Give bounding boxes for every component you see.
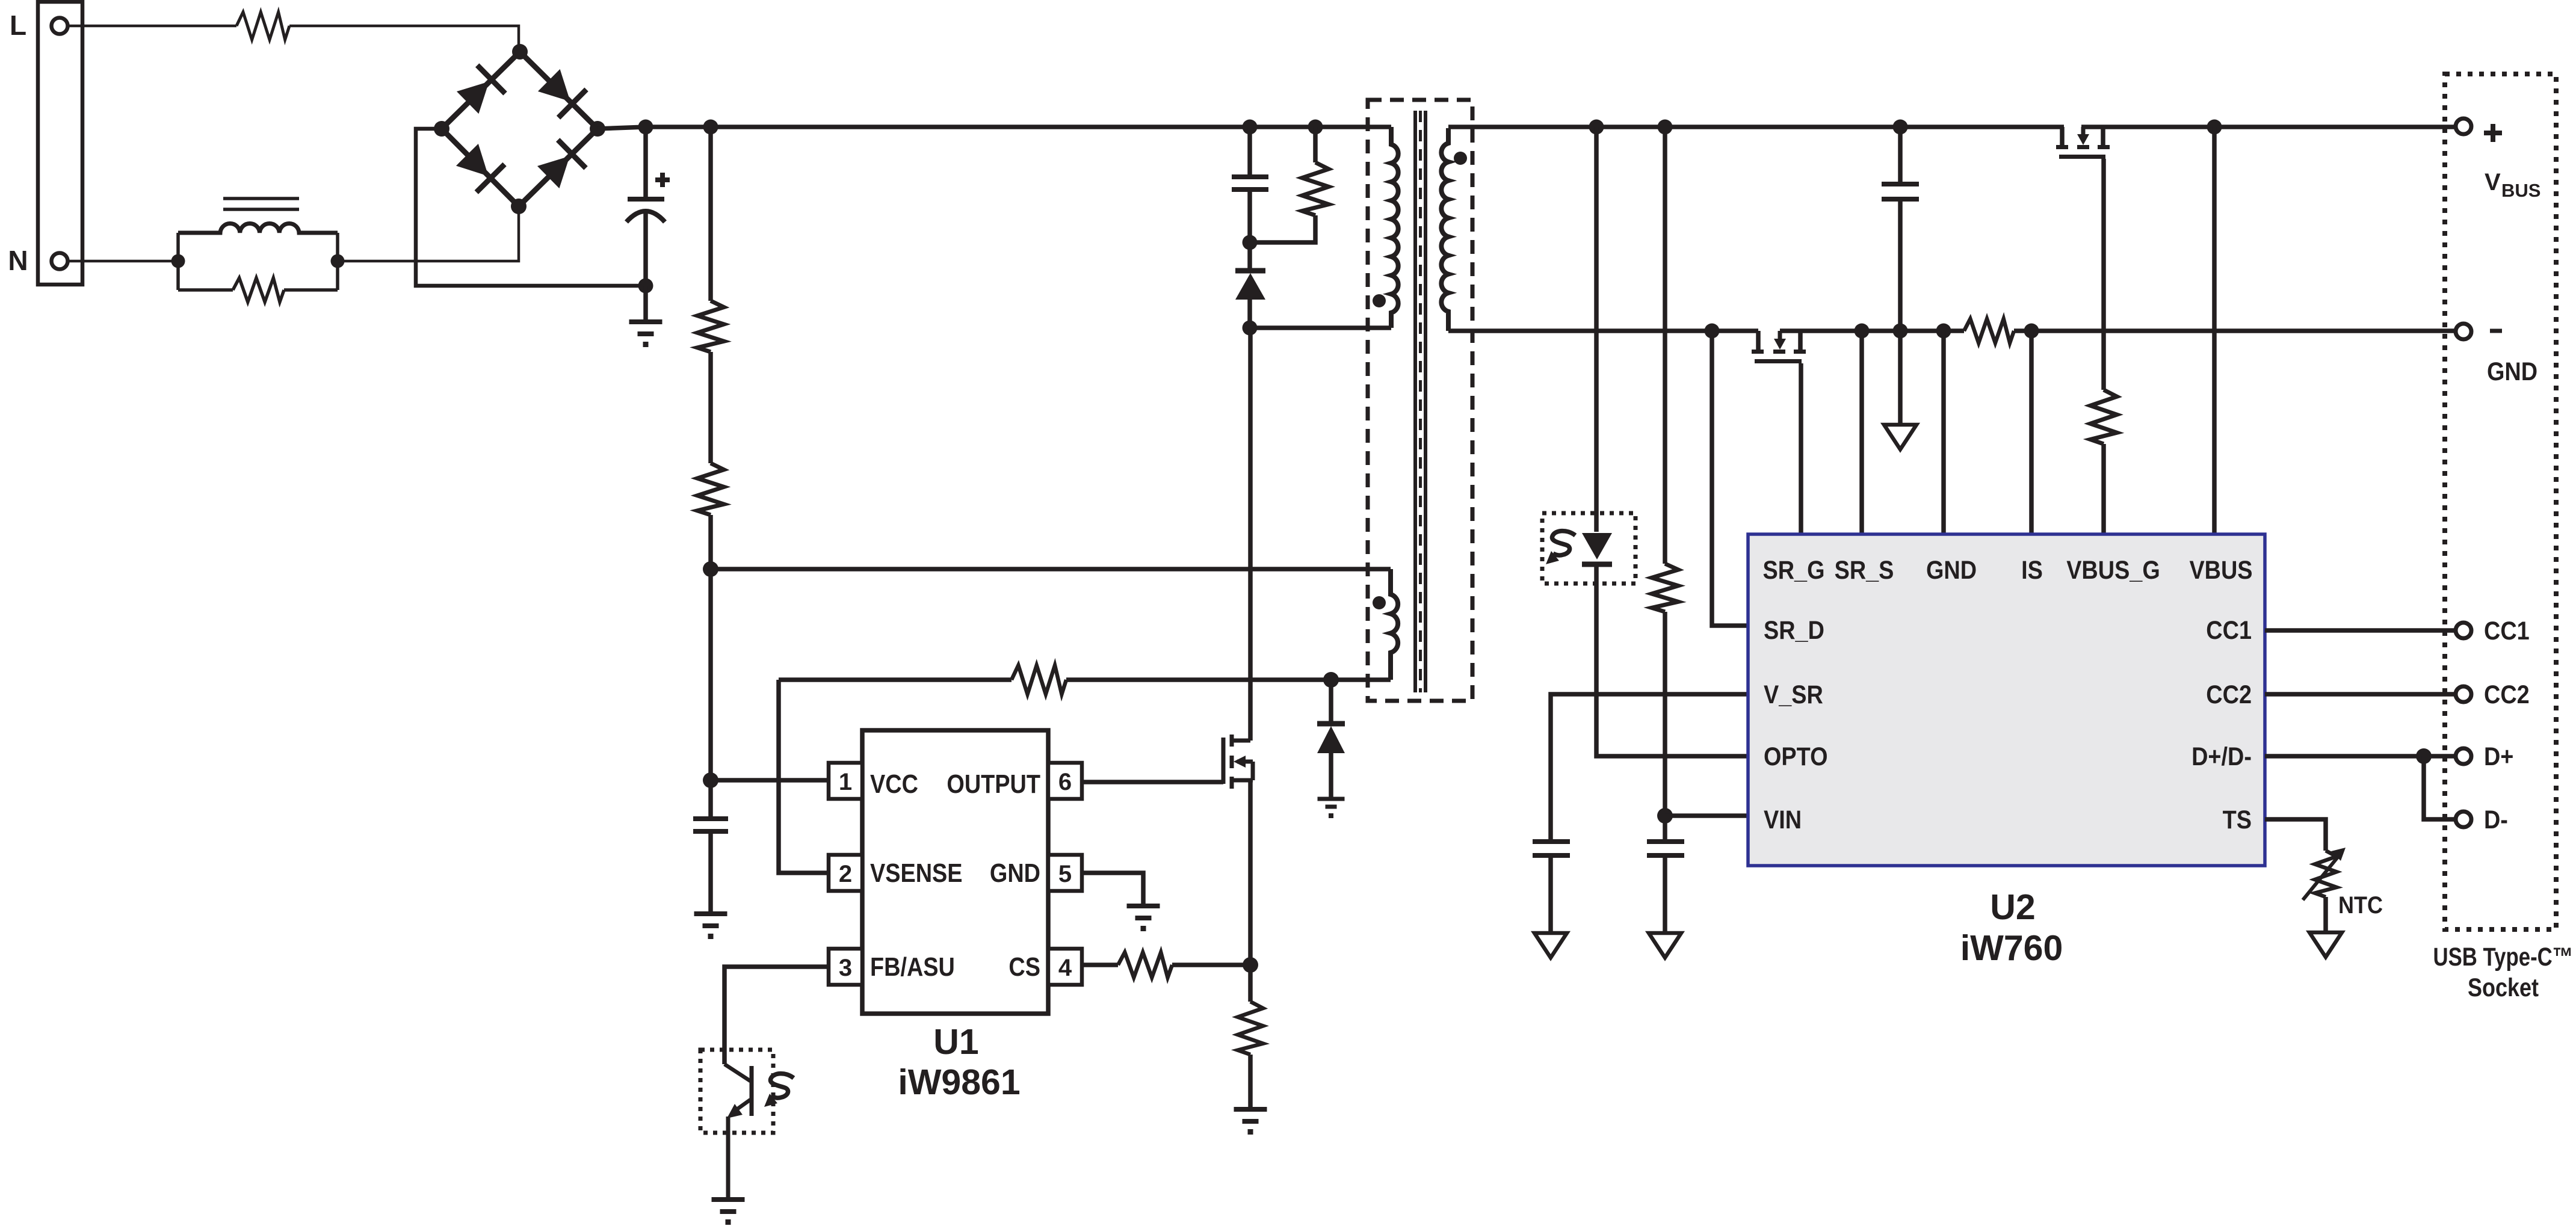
- startup resistor R2: [708, 352, 713, 463]
- FB/ASU wire: [724, 967, 829, 1064]
- TS wire: [2265, 819, 2326, 851]
- VCC wire: [711, 778, 829, 783]
- bridge diode D4 (bottom-right arm): [534, 140, 586, 191]
- optocoupler LED light arrow: [1552, 531, 1575, 555]
- secondary ground wire left: [1448, 328, 1758, 333]
- USB socket dotted box: [2445, 74, 2556, 929]
- bulk capacitor C1 plus sign: [655, 177, 670, 182]
- SR_D wire: [1712, 331, 1748, 626]
- optocoupler LED dotted box: [1542, 513, 1635, 584]
- USB CC1 terminal: [2456, 623, 2471, 638]
- aux winding feed wire: [711, 567, 1391, 571]
- aux return node: [1323, 672, 1339, 688]
- VBUS_G gate resistor R9: [2101, 159, 2106, 390]
- svg-text:FB/ASU: FB/ASU: [870, 952, 955, 982]
- VIN feed resistor R7: [1663, 127, 1667, 564]
- transformer secondary winding: [1441, 128, 1448, 331]
- snubber resistor R3: [1313, 127, 1318, 162]
- V_SR cap ground arrow: [1534, 933, 1567, 958]
- svg-text:VCC: VCC: [870, 769, 918, 799]
- VIN cap ground arrow: [1649, 933, 1681, 958]
- wire N to choke: [68, 260, 178, 263]
- VBUS pin wire: [2212, 127, 2217, 534]
- svg-text:VIN: VIN: [1764, 806, 1802, 834]
- secondary ground arrow stub: [1898, 331, 1903, 425]
- svg-text:4: 4: [1058, 955, 1072, 981]
- common-mode choke damping resistor: [176, 233, 180, 290]
- bulk capacitor C1 curved plate: [626, 211, 665, 222]
- IS node: [2024, 324, 2039, 339]
- CS wire: [1082, 963, 1118, 967]
- U2 body: [1748, 534, 2265, 866]
- common-mode choke core: [223, 197, 299, 200]
- optocoupler light arrow: [764, 1074, 794, 1107]
- bridge diode D2 (top-right arm): [535, 66, 587, 118]
- D+/D- wire: [2265, 754, 2456, 759]
- secondary VBUS rail left: [1448, 125, 2064, 129]
- wire fuse to bridge top: [289, 26, 519, 52]
- bridge diode D1 (left-top arm): [454, 65, 505, 117]
- rail node at snubber resistor: [1308, 120, 1323, 135]
- primary winding bottom node: [1243, 321, 1258, 336]
- U1 pin 5 box: [1048, 855, 1082, 891]
- bulk capacitor C1 positive lead: [643, 127, 648, 199]
- fuse F1: [236, 12, 289, 40]
- VCC ground symbol: [694, 911, 727, 916]
- bridge diode D3 (left-bottom arm): [453, 141, 505, 193]
- CS node: [1243, 957, 1258, 973]
- svg-text:VSENSE: VSENSE: [870, 858, 963, 888]
- primary ground symbol: [643, 286, 648, 322]
- secondary VBUS rail right: [2081, 125, 2456, 129]
- svg-text:V: V: [2485, 169, 2501, 196]
- terminal N: [52, 253, 68, 270]
- svg-text:D-: D-: [2484, 806, 2508, 834]
- svg-text:CS: CS: [1008, 952, 1040, 982]
- USB D- terminal: [2456, 812, 2471, 827]
- primary DC rail: [641, 125, 1391, 129]
- VCC capacitor C3: [708, 780, 713, 819]
- secondary phase dot: [1454, 152, 1467, 165]
- SR_S wire: [1859, 331, 1864, 534]
- IS pin wire: [2029, 331, 2034, 534]
- NTC ground arrow: [2323, 897, 2328, 932]
- U1 pin 1 box: [829, 763, 862, 799]
- VIN node: [1657, 808, 1673, 824]
- sense resistor R5: [1248, 965, 1253, 1002]
- choke left node: [171, 254, 185, 268]
- opto LED rail node: [1589, 120, 1604, 135]
- svg-text:SR_D: SR_D: [1764, 616, 1824, 645]
- svg-text:3: 3: [839, 955, 852, 981]
- wire divider node to VCC node: [708, 569, 713, 780]
- SR gate wire: [1799, 363, 1803, 534]
- rail node at divider: [703, 120, 718, 135]
- svg-text:iW760: iW760: [1960, 928, 2063, 968]
- svg-text:CC2: CC2: [2484, 680, 2530, 709]
- opto LED wire upper: [1594, 127, 1599, 532]
- aux diode ground symbol: [1318, 797, 1345, 801]
- svg-text:5: 5: [1058, 861, 1072, 887]
- snubber capacitor C2: [1247, 127, 1252, 177]
- NTC thermistor: [2315, 851, 2337, 897]
- U1 pin 4 box: [1048, 949, 1082, 985]
- U2 GND node: [1936, 324, 1951, 339]
- rail node at bulk cap: [638, 120, 653, 135]
- common-mode choke inductor: [178, 224, 338, 233]
- OUTPUT gate wire: [1082, 780, 1223, 784]
- aux phase dot: [1373, 596, 1386, 609]
- primary phase dot: [1373, 294, 1386, 307]
- MOSFET Q1 source wire: [1248, 780, 1253, 965]
- USB VBUS terminal: [2456, 119, 2471, 134]
- optocoupler emitter ground symbol: [712, 1197, 745, 1202]
- AC input terminal block: [38, 2, 82, 285]
- svg-text:U2: U2: [1990, 887, 2035, 927]
- current sense shunt resistor R8: [1964, 319, 2014, 343]
- wire choke to bridge bottom: [338, 206, 519, 261]
- svg-text:OUTPUT: OUTPUT: [947, 769, 1040, 799]
- opto LED wire lower: [1596, 564, 1748, 756]
- GND pin 5 wire: [1082, 873, 1143, 906]
- svg-text:CC1: CC1: [2206, 616, 2252, 645]
- snubber node: [1243, 235, 1258, 250]
- VSENSE wire: [779, 680, 829, 873]
- pin 5 ground symbol: [1127, 904, 1160, 908]
- svg-text:U1: U1: [933, 1022, 978, 1062]
- U2 GND pin wire: [1941, 331, 1946, 534]
- output capacitor C8: [1898, 127, 1903, 184]
- startup resistor R1: [708, 127, 713, 301]
- optocoupler transistor dotted box: [700, 1050, 773, 1133]
- svg-text:V_SR: V_SR: [1764, 680, 1823, 709]
- USB plus sign: [2484, 131, 2502, 135]
- svg-text:GND: GND: [990, 858, 1040, 888]
- VIN capacitor C7: [1663, 816, 1667, 842]
- USB CC2 terminal: [2456, 686, 2471, 702]
- snubber clamp diode D5: [1247, 242, 1252, 271]
- D- branch wire: [2424, 756, 2456, 819]
- svg-text:1: 1: [839, 769, 852, 795]
- choke right node: [331, 254, 345, 268]
- svg-text:D+/D-: D+/D-: [2191, 742, 2252, 771]
- SR MOSFET Q2: [1756, 331, 1761, 350]
- svg-text:2: 2: [839, 861, 852, 887]
- svg-text:BUS: BUS: [2501, 180, 2540, 201]
- V_SR capacitor C6: [1533, 839, 1570, 844]
- svg-text:GND: GND: [2487, 357, 2537, 386]
- svg-text:VBUS_G: VBUS_G: [2066, 556, 2160, 585]
- VBUS rail node: [2207, 120, 2222, 135]
- wire snubber node to primary winding: [1250, 325, 1391, 330]
- svg-text:SR_S: SR_S: [1835, 556, 1894, 585]
- SR drain node: [1705, 324, 1720, 339]
- USB minus sign: [2490, 329, 2502, 333]
- svg-text:GND: GND: [1926, 556, 1977, 585]
- wire L to fuse: [68, 25, 236, 28]
- VIN feed rail node: [1658, 120, 1673, 135]
- secondary ground wire right: [1780, 328, 1964, 333]
- output capacitor ground node: [1893, 324, 1908, 339]
- svg-text:6: 6: [1058, 769, 1072, 795]
- CS wire to source: [1172, 963, 1250, 967]
- bridge top node: [512, 44, 528, 60]
- V_SR wire: [1551, 694, 1748, 842]
- bridge right node: [590, 121, 605, 137]
- svg-text:CC1: CC1: [2484, 617, 2530, 645]
- svg-text:iW9861: iW9861: [898, 1062, 1020, 1102]
- U1 pin 2 box: [829, 855, 862, 891]
- feedback resistor R6: [1066, 677, 1331, 682]
- bulk capacitor C1 top plate: [628, 197, 664, 202]
- transformer primary winding: [1391, 127, 1398, 328]
- USB GND terminal: [2456, 324, 2471, 339]
- svg-text:USB Type-C™: USB Type-C™: [2433, 943, 2574, 972]
- bridge arm wires: [442, 52, 598, 206]
- svg-text:N: N: [8, 245, 28, 276]
- VBUS_G MOSFET Q3: [2060, 127, 2065, 145]
- sense resistor ground symbol: [1234, 1107, 1267, 1112]
- primary return node: [638, 279, 653, 294]
- svg-text:D+: D+: [2484, 742, 2513, 771]
- transformer core: [1413, 111, 1417, 692]
- bridge left node: [434, 121, 449, 137]
- svg-text:NTC: NTC: [2338, 892, 2383, 919]
- bulk capacitor C1 negative lead: [643, 212, 648, 286]
- U1 pin 3 box: [829, 949, 862, 985]
- U1 body: [862, 730, 1048, 1014]
- transformer shield dashed box: [1368, 100, 1472, 701]
- divider/aux node: [703, 561, 718, 577]
- bridge bottom node: [511, 199, 527, 214]
- MOSFET Q1: [1222, 738, 1226, 784]
- svg-text:OPTO: OPTO: [1764, 742, 1828, 771]
- D+/D- node: [2416, 748, 2432, 764]
- svg-text:IS: IS: [2021, 556, 2043, 585]
- svg-text:CC2: CC2: [2206, 680, 2252, 709]
- USB D+ terminal: [2456, 748, 2471, 764]
- svg-text:Socket: Socket: [2468, 973, 2539, 1002]
- CC1 wire: [2265, 628, 2456, 633]
- svg-text:SR_G: SR_G: [1763, 556, 1825, 585]
- wire bridge right to rail: [598, 127, 646, 129]
- optocoupler transistor: [750, 1066, 754, 1116]
- VIN wire: [1665, 813, 1748, 818]
- VCC node: [703, 772, 718, 788]
- optocoupler LED: [1582, 533, 1612, 559]
- aux return wire: [1331, 677, 1391, 682]
- U1 pin 6 box: [1048, 763, 1082, 799]
- svg-text:L: L: [10, 10, 26, 41]
- MOSFET Q1 drain wire: [1248, 328, 1253, 741]
- svg-text:VBUS: VBUS: [2189, 556, 2252, 585]
- SR source node: [1855, 324, 1870, 339]
- wire bridge left to primary return: [416, 129, 644, 286]
- output capacitor rail node: [1893, 120, 1908, 135]
- CS resistor R4: [1118, 952, 1172, 978]
- transformer auxiliary winding: [1391, 569, 1398, 680]
- svg-text:TS: TS: [2223, 806, 2252, 834]
- secondary ground wire right2: [2014, 328, 2456, 333]
- CC2 wire: [2265, 692, 2456, 697]
- aux diode D6: [1329, 680, 1333, 724]
- terminal L: [52, 18, 68, 34]
- rail node at snubber cap: [1243, 120, 1258, 135]
